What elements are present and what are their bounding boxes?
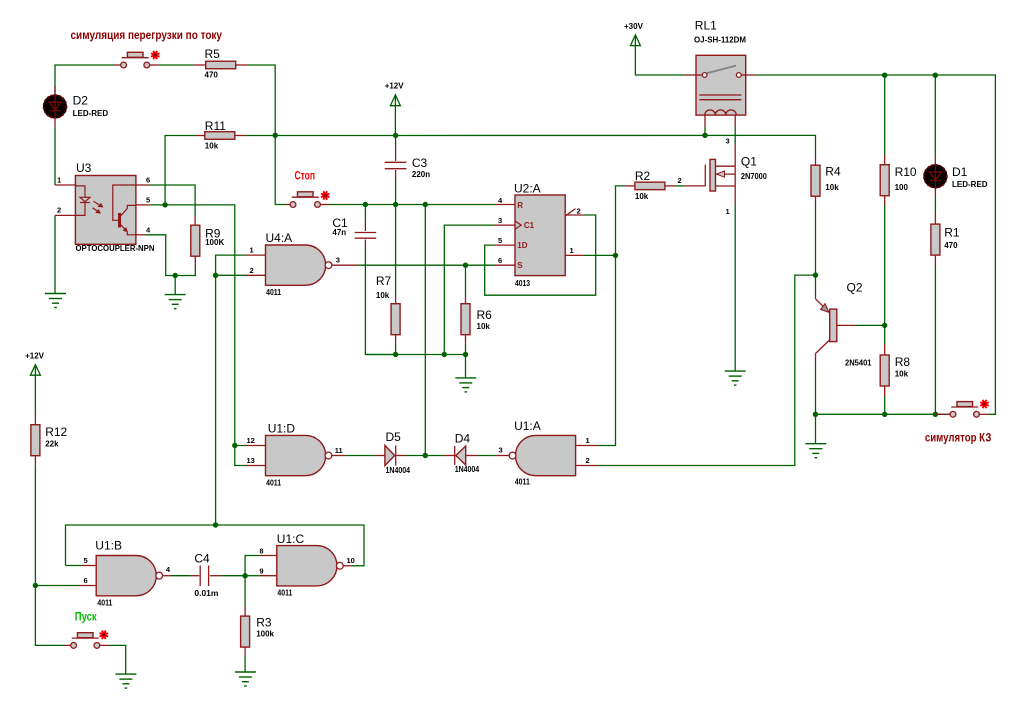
push-button KZ (симулятор КЗ) [951, 406, 978, 408]
svg-text:+30V: +30V [624, 22, 644, 31]
RL1 coil pin right down [734, 115, 736, 127]
pin stub U3 pin5 [136, 204, 149, 206]
wire: U3 pin5 row to U1:D inputs [149, 205, 235, 446]
svg-text:C3: C3 [412, 156, 428, 170]
pin stub U4:A pin1 [245, 254, 266, 256]
pin stub U2:A pin1 Q [565, 254, 584, 256]
junction: clock feedback [442, 352, 447, 357]
wire: U1:C out to feedback riser [352, 565, 364, 567]
wire: D5 to D4 junction [406, 455, 445, 457]
wire: Q1 source to ground [734, 186, 736, 205]
wire: Q2 collector down [815, 354, 817, 361]
svg-text:12: 12 [247, 436, 255, 445]
svg-text:R11: R11 [205, 119, 226, 133]
svg-text:4011: 4011 [515, 478, 530, 487]
transistor Q1 (2N7000 MOSFET) [704, 165, 706, 186]
pin stub U1:D pin12 [245, 445, 266, 447]
svg-text:10k: 10k [376, 291, 390, 300]
svg-text:1D: 1D [517, 241, 527, 250]
svg-text:4011: 4011 [97, 598, 112, 607]
wire: emitter node to U1:A pin2 [598, 275, 816, 465]
svg-text:10k: 10k [635, 192, 649, 201]
junction: U1:C input node [242, 573, 247, 578]
actuator icon SW-overload [152, 52, 158, 58]
svg-text:U3: U3 [76, 161, 92, 175]
svg-text:R10: R10 [895, 165, 917, 179]
wire: U1:B out to C4 [172, 575, 191, 577]
pin stub U1:B pin5 [82, 565, 96, 567]
junction: start node [33, 583, 38, 588]
pin stub: Стоп left [286, 204, 291, 206]
svg-text:C1: C1 [524, 221, 535, 230]
svg-text:100K: 100K [205, 238, 224, 247]
svg-text:470: 470 [944, 241, 958, 250]
wire: node to U1:B pin6 [35, 585, 78, 587]
wire: oscillator feedback row y525 [66, 525, 365, 566]
pin stub RL1 NO contact [746, 74, 757, 76]
capacitor C1 [364, 205, 366, 222]
wire: R1 bottom to KZ row [934, 266, 936, 415]
svg-text:6: 6 [498, 256, 502, 265]
junction: R8 bottom [882, 412, 887, 417]
ground (U3 emitter) [165, 294, 186, 296]
svg-text:R: R [517, 201, 523, 210]
wire: U4:A out to U2:A S pin [358, 264, 495, 266]
svg-text:47n: 47n [332, 228, 346, 237]
wire: +12V to R12 [34, 375, 36, 414]
svg-text:Q2: Q2 [847, 280, 863, 294]
svg-text:R12: R12 [45, 425, 67, 439]
wire: Q node down to U1:A pin1 [598, 255, 616, 445]
svg-text:U1:A: U1:A [514, 419, 541, 433]
svg-text:Стоп: Стоп [295, 171, 316, 183]
actuator icon Пуск [101, 632, 107, 638]
pin stub U3 pin1 [55, 184, 75, 186]
pin stub: Стоп right [320, 204, 330, 206]
resistor R11 [195, 135, 205, 137]
NAND gate U1:C body [277, 546, 337, 586]
svg-text:U1:C: U1:C [277, 532, 305, 546]
wire: node down to Пуск button [35, 586, 63, 646]
resistor R6 [465, 265, 467, 297]
pin stub RL1 common [685, 74, 697, 76]
junction: R7 bottom [393, 352, 398, 357]
svg-text:13: 13 [247, 456, 255, 465]
NAND gate U4:A body [266, 245, 326, 285]
pin stub U1:A pin3 output [495, 455, 509, 457]
wire: bottom-right row y414 [816, 413, 951, 415]
junction: right rail x935 [933, 73, 938, 78]
wire: main +12V rail y135 [245, 135, 815, 155]
wire: U4:A inputs tie [216, 255, 245, 525]
U3 internal LED [75, 186, 90, 216]
wire: Q node up to R2 [616, 186, 625, 256]
RL1 coil pin left to rail [704, 115, 706, 127]
pin stub U1:C pin9 [259, 575, 276, 577]
svg-text:4011: 4011 [277, 589, 292, 598]
svg-text:R4: R4 [825, 165, 841, 179]
resistor R7 [395, 205, 397, 298]
svg-text:10k: 10k [205, 142, 219, 151]
junction: R-bus x395 (C3/R7) [393, 202, 398, 207]
wire: D2 top to overload button [55, 65, 114, 95]
svg-text:10k: 10k [477, 322, 491, 331]
junction: Q2 collector node [813, 412, 818, 417]
optocoupler U3 body [75, 176, 135, 245]
push-button SW-overload (симуляция перегрузки) [122, 57, 149, 59]
svg-text:R3: R3 [256, 615, 272, 629]
junction: D5/D4 node [423, 453, 428, 458]
ground (R6) [455, 377, 476, 379]
svg-text:2N7000: 2N7000 [741, 172, 768, 181]
pin stub: button SW-overload left [114, 64, 121, 66]
pin stub U1:D pin13 [245, 465, 266, 467]
svg-text:2: 2 [250, 266, 254, 275]
pin stub U1:D pin11 output [332, 455, 345, 457]
wire: R-bus drop to D5/D4 junction [424, 205, 426, 456]
pin stub: button SW-overload right [150, 64, 159, 66]
flip-flop U2:A body [515, 195, 565, 276]
junction: emitter/ground node [173, 273, 178, 278]
svg-text:4011: 4011 [266, 288, 281, 297]
svg-text:3: 3 [499, 445, 503, 454]
wire: Пуск right to ground [109, 645, 126, 674]
svg-text:D1: D1 [952, 165, 968, 179]
diode D4 (1N4004) [444, 455, 454, 457]
resistor R4 [815, 155, 817, 165]
junction: U4:A input tie [213, 273, 218, 278]
svg-text:5: 5 [84, 556, 88, 565]
resistor R9 [194, 216, 196, 226]
capacitor C4 [191, 575, 200, 577]
NAND gate U1:D body [266, 435, 326, 475]
svg-text:22k: 22k [45, 440, 59, 449]
svg-text:симуляция перегрузки по току: симуляция перегрузки по току [71, 30, 223, 42]
junction: right rail x885 [882, 73, 887, 78]
wire: C3 bottom to R-bus [395, 181, 397, 205]
wire: R6 bottom to ground [465, 355, 467, 378]
svg-text:симулятор КЗ: симулятор КЗ [925, 433, 992, 445]
svg-text:3: 3 [498, 216, 502, 225]
ground (R3) [235, 671, 256, 673]
svg-text:1: 1 [57, 176, 61, 185]
pin stub: Пуск left [63, 644, 70, 646]
U3 internal light arrows [93, 201, 104, 213]
svg-text:R5: R5 [205, 47, 221, 61]
svg-text:RL1: RL1 [695, 19, 717, 33]
svg-text:0.01m: 0.01m [194, 589, 218, 598]
svg-text:1N4004: 1N4004 [386, 466, 411, 475]
svg-text:2: 2 [57, 206, 61, 215]
actuator icon KZ [981, 401, 987, 407]
wire: Q2 base to R8 node [855, 324, 884, 326]
wire: R12 bottom to U1:B pin6 node [34, 465, 36, 585]
svg-text:U1:B: U1:B [95, 538, 122, 552]
wire: U1:D inputs tie [235, 445, 245, 447]
svg-text:1: 1 [250, 246, 254, 255]
pin stub U4:A pin2 [245, 274, 266, 276]
pin stub U2:A S pin [495, 264, 516, 266]
wire: D2 bottom to U3 pin1 [54, 127, 56, 185]
pin stub U2:A R pin [496, 204, 516, 206]
actuator icon Стоп [322, 192, 328, 198]
junction: U4:A input pickup [213, 522, 218, 527]
svg-text:2: 2 [586, 456, 590, 465]
pin stub U2:A pin2 Q-bar [565, 214, 584, 216]
pin stub U1:A pin1 [576, 445, 598, 447]
LED D2 [54, 86, 56, 95]
pin stub U2:A 1D pin [495, 244, 516, 246]
junction: R6 top on S row [463, 263, 468, 268]
ground (Пуск) [115, 673, 136, 675]
svg-text:R1: R1 [944, 226, 960, 240]
wire: button to R5 [159, 64, 194, 66]
wire: R-bus (Стоп to U2:A R pin) [330, 204, 496, 206]
wire: +12V arrow to rail [394, 106, 396, 136]
wire: bottom junction row y354 [365, 354, 465, 356]
svg-text:100k: 100k [256, 629, 274, 638]
RL1 core lines [699, 94, 741, 96]
svg-text:1N4004: 1N4004 [455, 465, 480, 474]
svg-text:D4: D4 [455, 432, 471, 446]
junction: rail x705 (relay coil) [702, 133, 707, 138]
pin stub U1:A pin2 [576, 465, 598, 467]
transistor Q2 (2N5401 PNP) [830, 309, 837, 342]
junction: R-bus x365 (C1) [363, 202, 368, 207]
relay RL1 body [696, 55, 746, 115]
wire: relay NO to right rail [756, 75, 995, 414]
svg-text:LED-RED: LED-RED [73, 109, 109, 118]
wire: Q1 drain to relay coil [734, 127, 736, 145]
wire: Q to R2 riser and U1:A pin1 [584, 254, 616, 256]
wire: rail drop to Стоп button [275, 135, 285, 204]
svg-text:2: 2 [678, 176, 682, 185]
LED D1 [934, 75, 936, 155]
wire: clock feedback riser [444, 225, 494, 354]
NAND gate U1:B body [96, 556, 156, 596]
svg-text:R6: R6 [477, 308, 493, 322]
junction: R6 bottom [463, 352, 468, 357]
pin stub U3 pin6 [136, 184, 149, 186]
wire: U1:D out to D5 [346, 455, 376, 457]
junction: R1 bottom [933, 412, 938, 417]
wire: Q2 emitter to node [815, 275, 817, 294]
RL1 coil [705, 110, 737, 115]
pin stub: KZ button right [979, 413, 990, 415]
resistor R10 [884, 75, 886, 155]
wire: R4 bottom to emitter node [815, 206, 817, 276]
svg-text:D2: D2 [73, 94, 89, 108]
svg-text:3: 3 [336, 256, 340, 265]
resistor R12 [34, 414, 36, 425]
svg-text:1: 1 [586, 436, 590, 445]
wire: U3 pin4 to ground junction [146, 235, 175, 276]
svg-text:U2:A: U2:A [514, 182, 541, 196]
pin stub U3 pin2 [55, 214, 75, 216]
capacitor C3 [395, 135, 397, 144]
RL1 switch contacts [696, 74, 702, 76]
junction: U1:D input tie [232, 443, 237, 448]
svg-text:6: 6 [146, 176, 150, 185]
pin stub U1:C pin8 [259, 555, 276, 557]
svg-text:S: S [517, 261, 523, 270]
wire: R9 bottom to ground junction [175, 266, 195, 275]
pin stub U3 pin4 [136, 234, 146, 236]
pin stub U1:C pin10 output [343, 565, 352, 567]
wire: U3 pin2 to ground [54, 215, 56, 293]
wire: D1 to R1 [934, 197, 936, 214]
svg-text:10k: 10k [895, 370, 909, 379]
wire: +30V to relay common [635, 46, 684, 75]
svg-text:Q1: Q1 [741, 154, 757, 168]
pin stub U2:A C1 clock pin [495, 224, 516, 226]
resistor R5 [193, 64, 205, 66]
svg-text:R8: R8 [895, 355, 911, 369]
svg-text:10: 10 [347, 556, 355, 565]
svg-text:10k: 10k [825, 183, 839, 192]
NAND gate U1:A body [515, 435, 575, 475]
svg-text:2: 2 [577, 206, 581, 215]
pin stub U4:A pin3 output [332, 264, 357, 266]
resistor R8 [884, 325, 886, 344]
svg-text:4013: 4013 [515, 279, 530, 288]
pin stub: KZ button left [935, 413, 950, 415]
svg-text:OJ-SH-112DM: OJ-SH-112DM [694, 36, 746, 45]
svg-text:4011: 4011 [266, 478, 281, 487]
resistor R2 [625, 185, 635, 187]
wire: R5 to rail corner x275 [248, 65, 275, 135]
svg-text:8: 8 [259, 546, 263, 555]
svg-text:11: 11 [335, 446, 343, 455]
wire: R10 bottom to Q2 base node [884, 206, 886, 326]
wire: C4 to U1:C pin9 node [221, 575, 245, 577]
svg-text:1: 1 [726, 207, 730, 216]
svg-text:U4:A: U4:A [266, 231, 293, 245]
push-button Пуск [72, 637, 99, 639]
resistor R3 [244, 576, 246, 606]
wire: Q-bar feedback loop to 1D [485, 215, 596, 295]
svg-text:5: 5 [146, 195, 150, 204]
junction: Q2 base node [882, 323, 887, 328]
svg-text:3: 3 [726, 137, 730, 146]
U3 internal phototransistor [113, 185, 136, 235]
diode D5 (1N4004) [375, 455, 385, 457]
svg-text:D5: D5 [386, 430, 402, 444]
svg-text:9: 9 [259, 567, 263, 576]
junction: rail x395 (+12V) [393, 133, 398, 138]
junction: emitter node [813, 272, 818, 277]
pin stub Q1 gate [685, 185, 705, 187]
ground (U3 pin2) [45, 293, 66, 295]
wire: R2 to Q1 gate [676, 185, 685, 187]
wire: D4 to U1:A output [478, 455, 496, 457]
svg-text:5: 5 [498, 236, 502, 245]
svg-text:OPTOCOUPLER-NPN: OPTOCOUPLER-NPN [76, 244, 155, 253]
junction: Q node [613, 253, 618, 258]
svg-text:+12V: +12V [385, 81, 405, 90]
pin stub U1:B pin6 [79, 585, 97, 587]
push-button Стоп [292, 196, 319, 198]
svg-text:R2: R2 [635, 169, 651, 183]
svg-text:C4: C4 [194, 551, 210, 565]
svg-text:100: 100 [895, 183, 909, 192]
junction: rail x275 [273, 133, 278, 138]
wire: U3 pin6 to R9 top [149, 185, 195, 216]
svg-text:6: 6 [84, 576, 88, 585]
svg-text:470: 470 [205, 71, 219, 80]
resistor R1 [934, 214, 936, 224]
ground (Q1 source) [725, 370, 746, 372]
wire: R11 left to U3 pin5 row [165, 136, 195, 205]
U2:A clock triangle [515, 221, 521, 229]
svg-text:220n: 220n [412, 170, 430, 179]
wire: Q2 node to ground [815, 414, 817, 443]
junction: R11 drop on pin5 row [162, 202, 167, 207]
junction: R-bus x425 (diode drop) [423, 202, 428, 207]
svg-text:LED-RED: LED-RED [952, 180, 988, 189]
pin stub U1:B pin4 output [163, 575, 172, 577]
svg-text:+12V: +12V [25, 352, 45, 361]
wire: C1 bottom to bottom junction row [365, 249, 395, 355]
svg-text:U1:D: U1:D [268, 422, 296, 436]
wire: feedback to U1:B pin5 [66, 565, 82, 567]
svg-text:R7: R7 [376, 274, 392, 288]
pin stub: Пуск right [100, 644, 109, 646]
wire: junction to ground [174, 276, 176, 295]
svg-text:1: 1 [570, 246, 574, 255]
inversion slash on pin 2 [566, 209, 576, 216]
svg-text:Пуск: Пуск [75, 612, 97, 624]
ground (Q2) [805, 443, 826, 445]
wire: U1:C inputs tie [245, 556, 259, 576]
svg-text:2N5401: 2N5401 [845, 358, 872, 367]
